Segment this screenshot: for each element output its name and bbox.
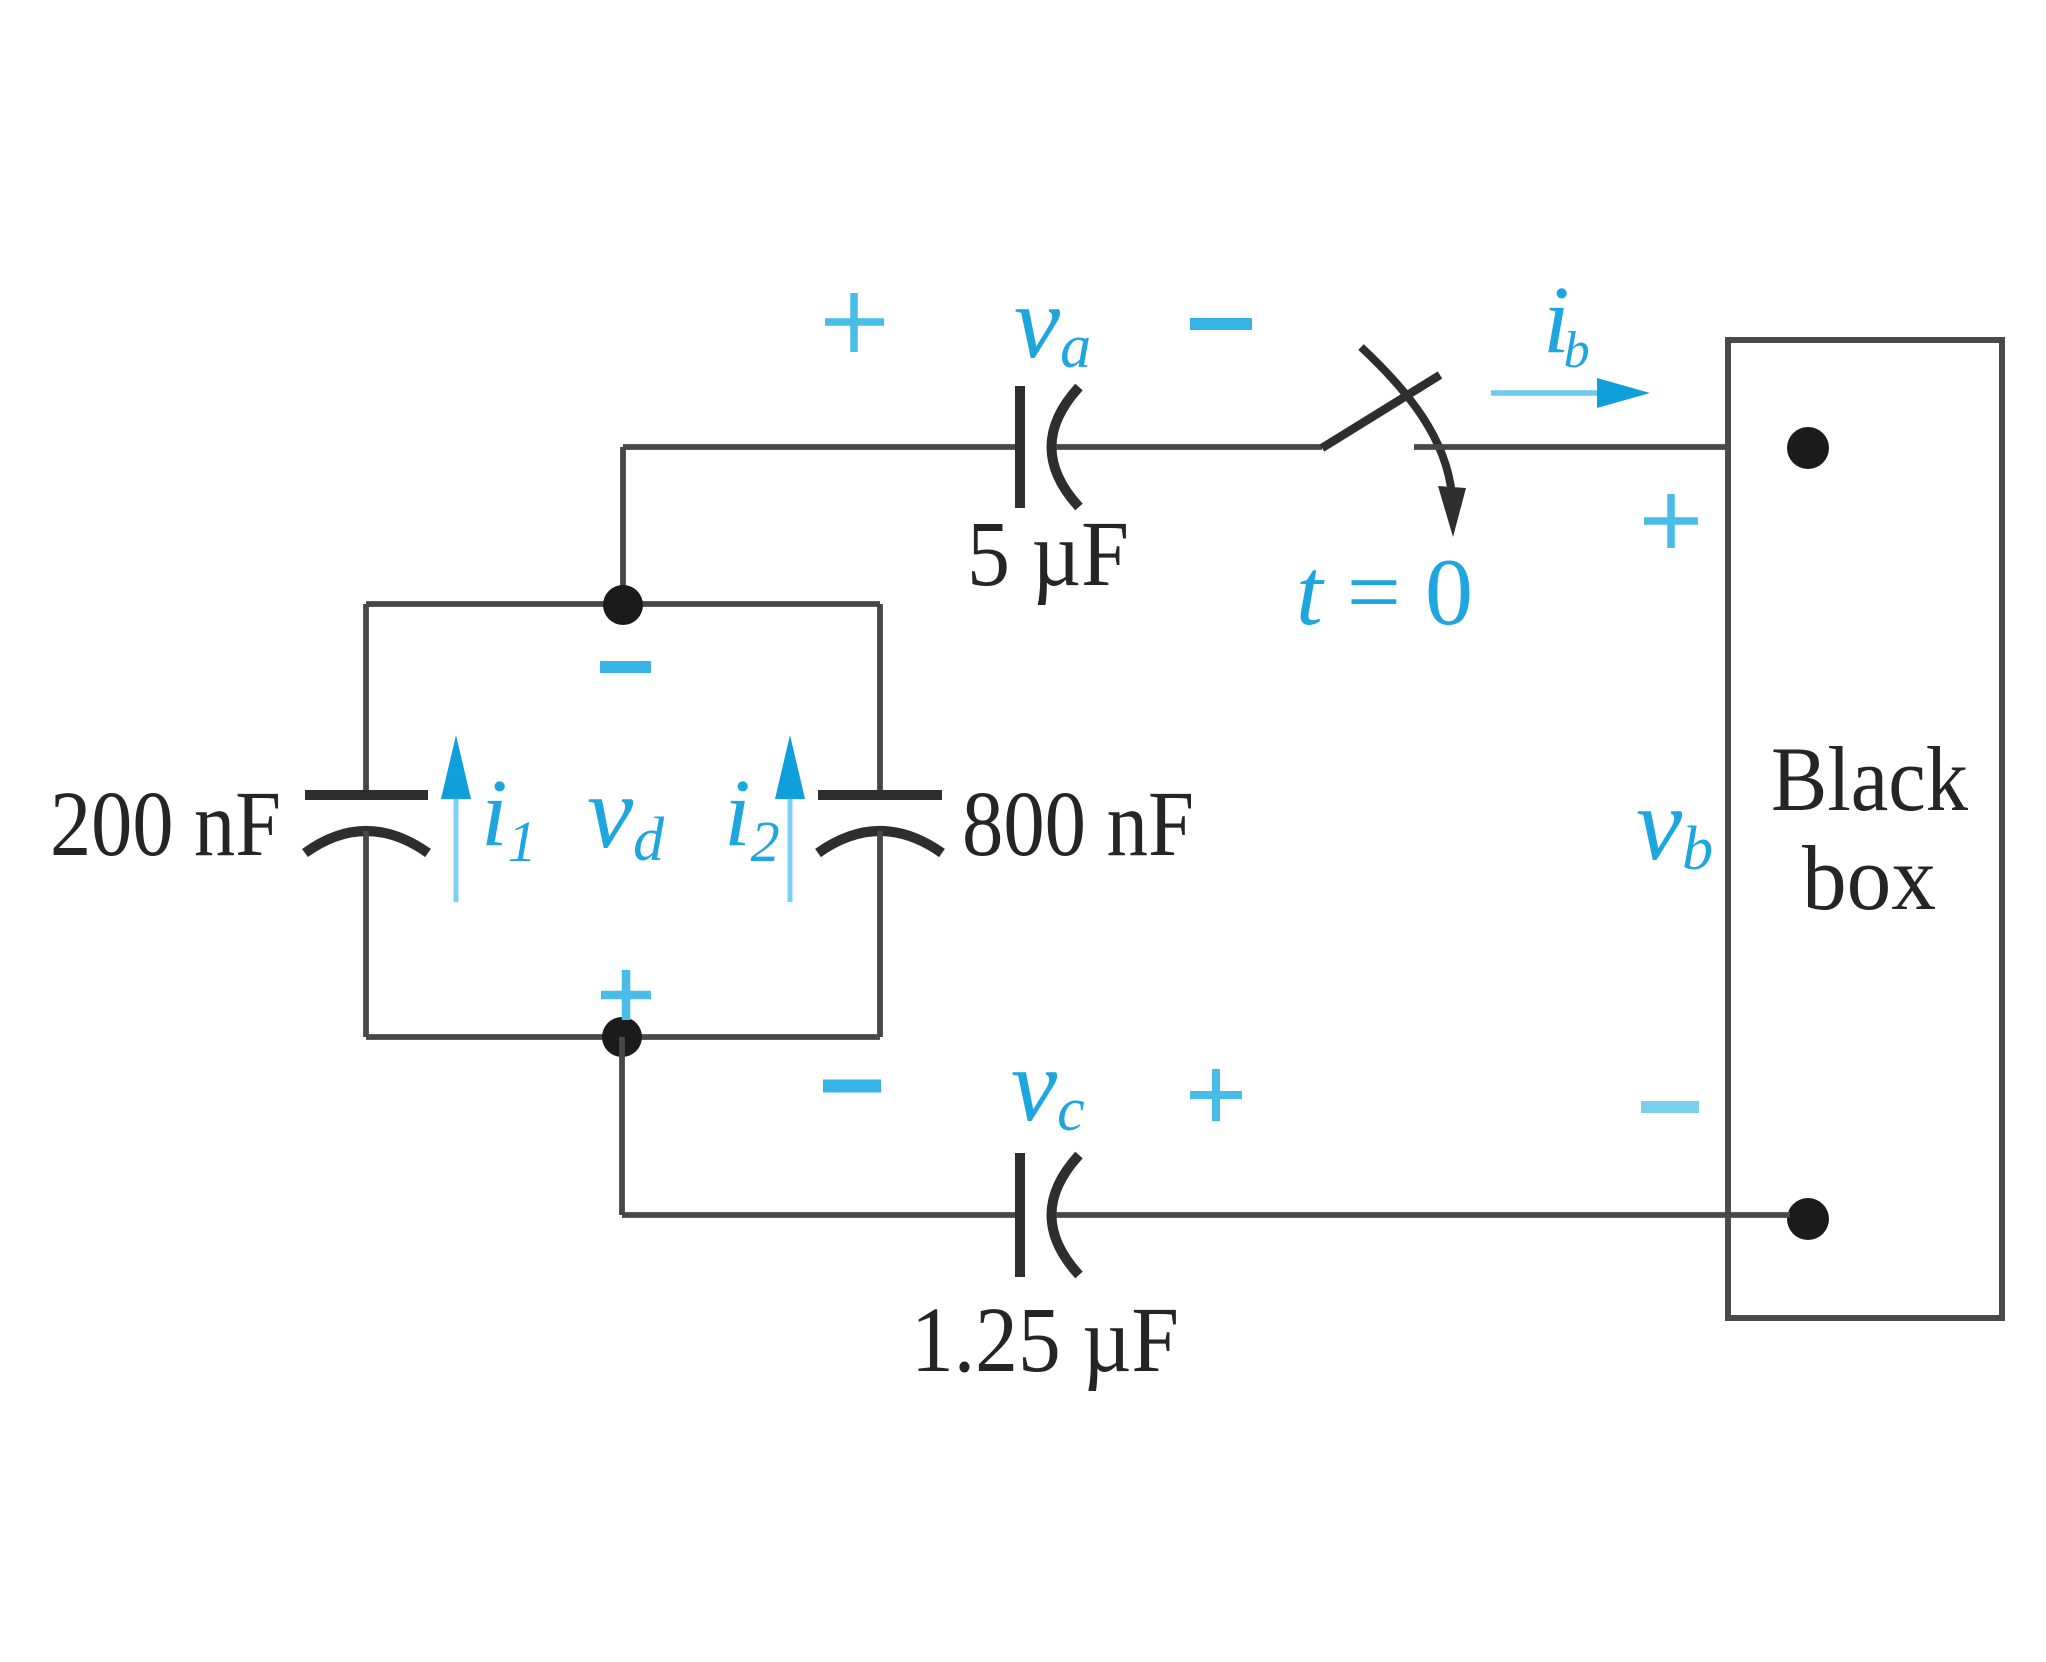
wire: top rail left segment to capacitor Ca xyxy=(623,444,1018,450)
square loop: right edge lower xyxy=(877,831,883,1037)
wire: loop bottom node down to bottom rail xyxy=(619,1037,625,1215)
arrow i2 xyxy=(788,795,793,902)
wire: top rail from Ca to switch contact xyxy=(1056,444,1322,450)
label - (va) xyxy=(1190,318,1252,330)
svg-text:5 µF: 5 µF xyxy=(967,503,1129,606)
capacitor Ca 5uF left plate xyxy=(1015,386,1025,508)
switch blade (open) xyxy=(1322,375,1440,448)
wire: bottom rail from Cc to black box bottom terminal xyxy=(1056,1212,1790,1218)
capacitor C2 800nF curved plate xyxy=(818,831,942,853)
svg-text:t = 0: t = 0 xyxy=(1296,539,1473,645)
wire: bottom rail left segment to capacitor Cc xyxy=(622,1212,1018,1218)
square loop: left edge lower xyxy=(363,831,369,1037)
label - (vd) xyxy=(600,661,651,673)
svg-text:box: box xyxy=(1802,827,1936,929)
label - (vc) xyxy=(823,1080,881,1093)
node: top terminal dot xyxy=(1787,427,1829,469)
svg-text:Black: Black xyxy=(1771,728,1968,830)
label + (vc) xyxy=(1190,1069,1242,1121)
svg-text:200 nF: 200 nF xyxy=(50,773,281,876)
wire: top-left vertical from top rail down to node A xyxy=(620,447,626,604)
square loop: left edge upper xyxy=(363,604,369,792)
svg-text:800 nF: 800 nF xyxy=(962,773,1194,876)
square loop: top edge xyxy=(366,601,880,607)
svg-text:1.25 µF: 1.25 µF xyxy=(911,1289,1179,1392)
black box rectangle xyxy=(1728,340,2002,1318)
label - (vb) xyxy=(1641,1101,1699,1113)
label + (vb) xyxy=(1644,494,1698,548)
capacitor Cc 1.25uF left plate xyxy=(1015,1153,1025,1277)
capacitor Cc 1.25uF curved plate xyxy=(1052,1155,1080,1275)
square loop: right edge upper xyxy=(877,604,883,792)
capacitor C1 200nF flat plate xyxy=(305,790,428,800)
node B dot (bottom of loop) xyxy=(602,1017,642,1057)
label + (va) xyxy=(825,293,884,352)
square loop: bottom edge xyxy=(366,1034,880,1040)
node A dot (top of loop) xyxy=(603,585,643,625)
arrow ib xyxy=(1491,390,1600,396)
capacitor Ca 5uF curved plate xyxy=(1052,387,1080,507)
switch motion arrowhead xyxy=(1438,486,1466,537)
node: bottom terminal dot xyxy=(1787,1198,1829,1240)
switch motion arc xyxy=(1361,347,1452,495)
capacitor C2 800nF flat plate xyxy=(818,790,942,800)
wire: switch to black box top terminal xyxy=(1414,444,1790,450)
arrow i1 xyxy=(454,795,459,902)
capacitor C1 200nF curved plate xyxy=(305,831,428,853)
label + (vd) xyxy=(601,970,651,1020)
